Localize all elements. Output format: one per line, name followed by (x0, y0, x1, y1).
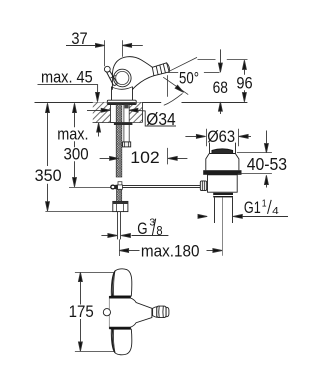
svg-text:96: 96 (236, 75, 252, 93)
faucet base plate (107, 100, 136, 104)
dimension 68 (213, 49, 228, 114)
svg-text:1: 1 (262, 197, 267, 209)
top view: body and spout (109, 296, 151, 329)
faucet body outline (112, 57, 152, 90)
waste tailpiece (215, 197, 233, 223)
faucet lever arm (107, 71, 118, 86)
top view: upper junction line (109, 296, 130, 298)
flexible hose braid upper (116, 105, 122, 177)
waste body (208, 175, 238, 192)
svg-text:Ø63: Ø63 (207, 128, 235, 146)
drain centerline (222, 197, 224, 255)
svg-text:40-53: 40-53 (247, 154, 288, 174)
dimension max. 45 (38, 68, 101, 136)
dimension max. 300 (57, 103, 111, 187)
svg-text:50°: 50° (179, 70, 199, 88)
waste gasket (203, 170, 241, 175)
dimension 102 (100, 148, 188, 167)
outlet level extension line (168, 72, 178, 74)
deck hatch left (93, 102, 111, 122)
svg-text:max.: max. (57, 126, 88, 144)
dimension max.180 (119, 243, 222, 261)
svg-text:68: 68 (213, 79, 228, 97)
dimension 96 (236, 60, 252, 102)
top view: upper wing (111, 269, 132, 296)
top view: aerator (153, 306, 169, 318)
deck bottom line (93, 122, 114, 124)
flexible hose braid lower (117, 190, 122, 204)
svg-text:G1: G1 (244, 199, 261, 217)
faucet lever ball (104, 66, 110, 72)
top view: lower junction line (109, 327, 130, 329)
supply pipe (118, 212, 121, 240)
pop-up waste rim (210, 143, 236, 154)
pop-up plug cap (212, 149, 233, 154)
dimension 350 (35, 103, 114, 211)
top view: lever ball (103, 309, 110, 316)
rod clamp (115, 185, 119, 190)
top view: lower wing (111, 329, 132, 355)
dimension 37 (66, 30, 143, 66)
fixing nut on stud (123, 142, 131, 147)
svg-text:max.180: max.180 (141, 243, 200, 261)
faucet column (111, 87, 132, 101)
svg-text:175: 175 (69, 303, 94, 321)
dimension Ø63 (185, 128, 251, 146)
dimension G1 1/4 (198, 197, 288, 218)
50 degree annotation (163, 57, 199, 105)
svg-text:Ø34: Ø34 (146, 109, 175, 129)
top view: dimension 175 (69, 272, 115, 351)
svg-text:G: G (137, 220, 147, 238)
faucet aerator (152, 63, 169, 76)
svg-text:300: 300 (64, 145, 89, 163)
faucet centerline extension (119, 239, 121, 256)
svg-text:max. 45: max. 45 (41, 68, 93, 86)
svg-text:37: 37 (71, 30, 87, 48)
threaded shank in hole (124, 105, 129, 142)
spout top level extension line (198, 59, 216, 61)
washer under deck (114, 122, 132, 125)
dimension 40-53 (237, 131, 287, 188)
tee on hose (118, 185, 123, 189)
svg-text:8: 8 (156, 223, 162, 238)
dimension Ø34 (87, 108, 176, 129)
horizontal drain rod (122, 186, 200, 188)
hose connector nut (113, 201, 128, 211)
dimension G3/8 (101, 216, 168, 238)
waste locknut (213, 193, 233, 198)
svg-text:102: 102 (130, 149, 159, 167)
deck top surface line (35, 102, 108, 104)
waste rod knob (200, 181, 206, 191)
pull rod connector (118, 182, 122, 185)
waste flange bell (206, 154, 239, 171)
faucet cartridge circle (114, 69, 132, 87)
svg-text:4: 4 (272, 205, 279, 217)
rod clevis eye (111, 185, 115, 189)
deck hatch right (129, 102, 143, 122)
svg-text:350: 350 (35, 167, 62, 185)
